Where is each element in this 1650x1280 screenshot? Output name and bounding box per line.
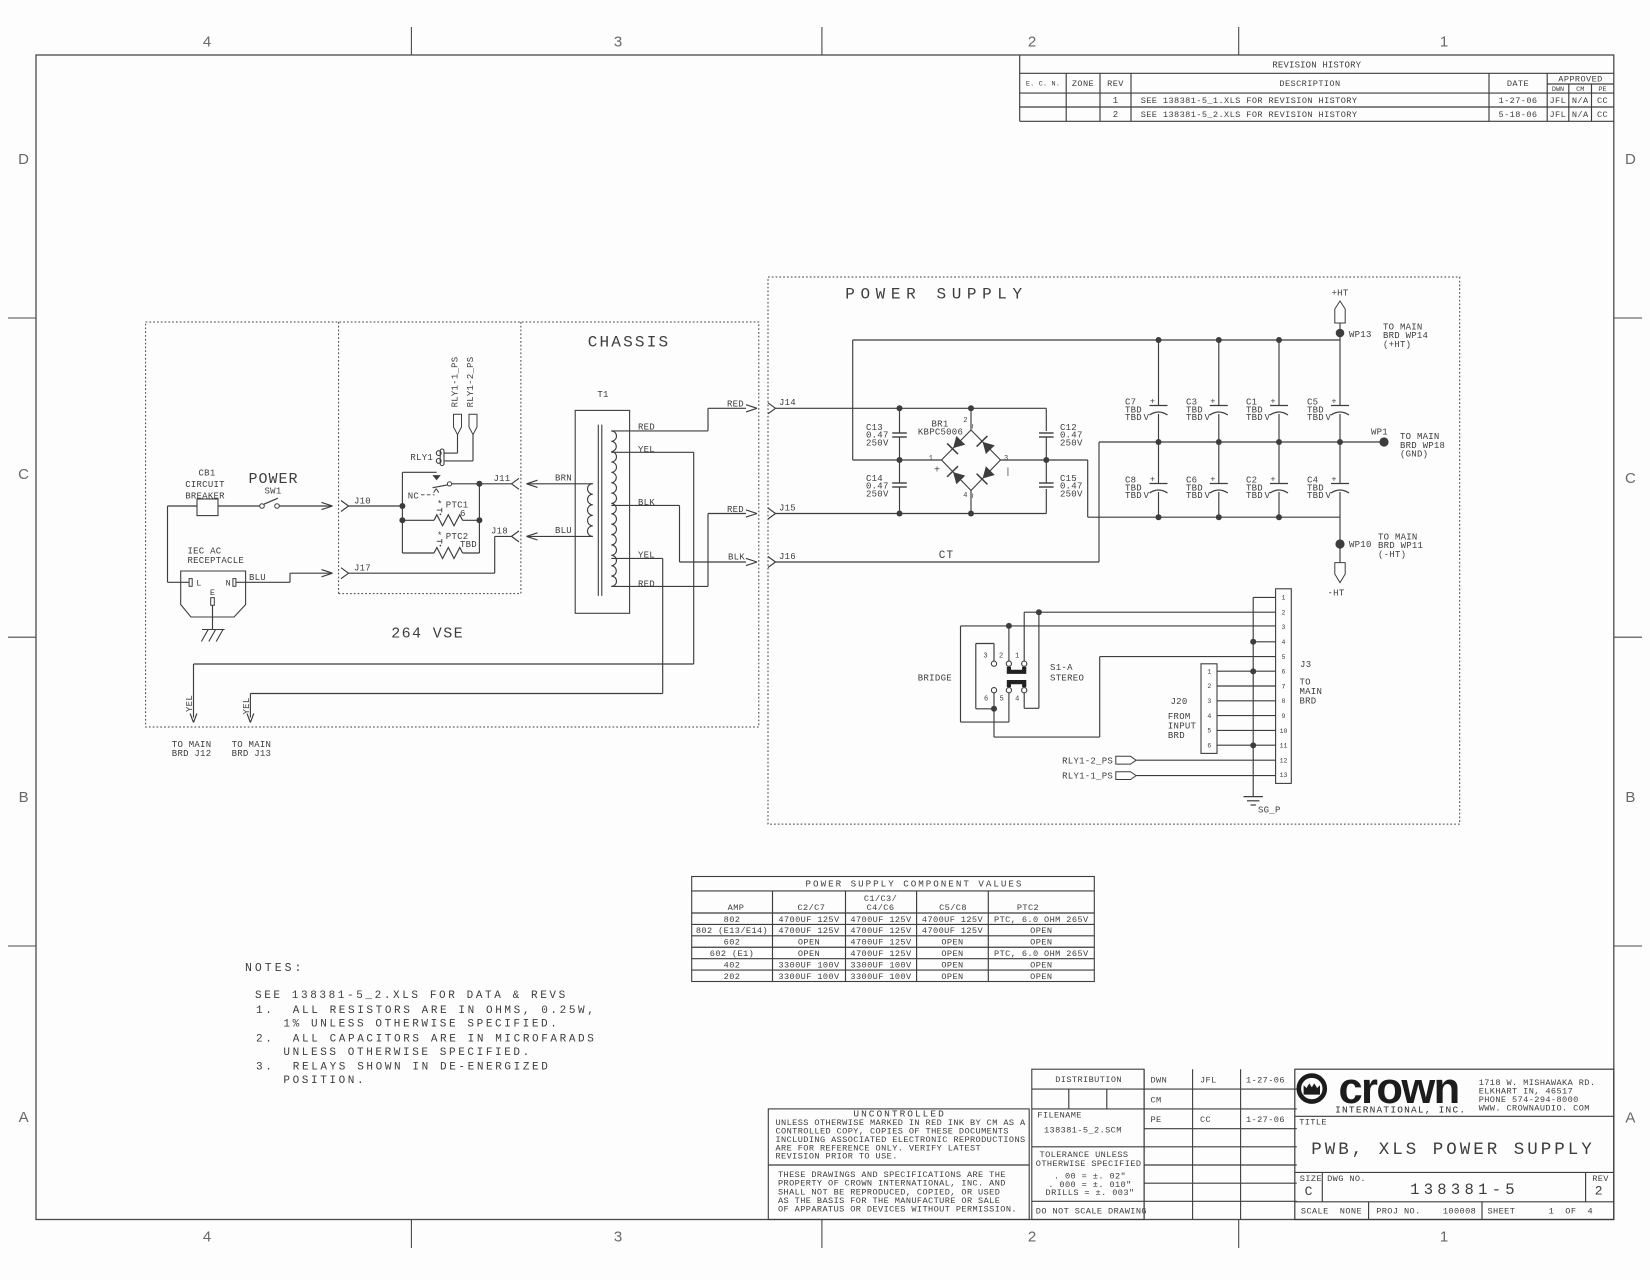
svg-text:E. C. N.: E. C. N. <box>1026 81 1060 89</box>
svg-text:A: A <box>1625 1109 1635 1126</box>
svg-text:RECEPTACLE: RECEPTACLE <box>188 556 245 566</box>
svg-text:OTHERWISE SPECIFIED: OTHERWISE SPECIFIED <box>1036 1159 1142 1169</box>
svg-text:POWER SUPPLY COMPONENT VALUES: POWER SUPPLY COMPONENT VALUES <box>806 878 1024 889</box>
svg-text:1-27-06: 1-27-06 <box>1246 1115 1285 1125</box>
svg-text:7: 7 <box>1282 683 1286 690</box>
svg-text:J10: J10 <box>354 496 371 506</box>
svg-text:(GND): (GND) <box>1400 450 1428 460</box>
svg-text:4700UF 125V: 4700UF 125V <box>778 915 840 925</box>
svg-text:PE: PE <box>1151 1115 1162 1125</box>
svg-text:PTC, 6.0 OHM 265V: PTC, 6.0 OHM 265V <box>994 915 1089 925</box>
svg-text:RED: RED <box>727 505 744 515</box>
svg-text:4: 4 <box>1207 713 1211 720</box>
svg-text:D: D <box>1625 151 1636 168</box>
svg-text:YEL: YEL <box>242 698 252 715</box>
svg-text:802 (E13/E14): 802 (E13/E14) <box>696 926 768 936</box>
svg-text:CM: CM <box>1151 1095 1162 1105</box>
svg-text:RLY1-2_PS: RLY1-2_PS <box>466 357 476 408</box>
svg-text:N/A: N/A <box>1572 96 1589 106</box>
svg-text:SG_P: SG_P <box>1258 806 1281 816</box>
svg-text:BRD J12: BRD J12 <box>172 749 212 759</box>
svg-text:N: N <box>225 578 231 588</box>
svg-text:REV: REV <box>1107 79 1124 89</box>
svg-text:TBD: TBD <box>1186 413 1203 423</box>
svg-text:YEL: YEL <box>185 695 195 712</box>
svg-text:INPUT: INPUT <box>1168 722 1197 732</box>
svg-text:OPEN: OPEN <box>1030 938 1052 948</box>
svg-text:YEL: YEL <box>638 445 655 455</box>
svg-text:8: 8 <box>1282 698 1286 705</box>
svg-text:BREAKER: BREAKER <box>185 491 225 501</box>
svg-text:PE: PE <box>1598 86 1606 94</box>
svg-text:3300UF 100V: 3300UF 100V <box>778 972 840 982</box>
svg-text:REV: REV <box>1592 1174 1609 1184</box>
svg-text:SEE 138381-5_2.XLS FOR REVISIO: SEE 138381-5_2.XLS FOR REVISION HISTORY <box>1141 110 1358 120</box>
svg-text:4700UF 125V: 4700UF 125V <box>850 926 912 936</box>
svg-text:INTERNATIONAL, INC.: INTERNATIONAL, INC. <box>1335 1105 1466 1116</box>
svg-text:E: E <box>210 588 216 598</box>
svg-text:WWW. CROWNAUDIO. COM: WWW. CROWNAUDIO. COM <box>1479 1103 1590 1113</box>
svg-text:1: 1 <box>1113 96 1118 106</box>
svg-text:802: 802 <box>724 915 741 925</box>
svg-text:+: + <box>1331 475 1337 485</box>
svg-text:3: 3 <box>614 1229 622 1246</box>
svg-text:DWN: DWN <box>1151 1075 1168 1085</box>
svg-text:+: + <box>1270 475 1276 485</box>
svg-text:+HT: +HT <box>1332 289 1349 299</box>
svg-text:RED: RED <box>638 579 655 589</box>
svg-text:V: V <box>1144 413 1150 423</box>
svg-text:3: 3 <box>983 653 987 661</box>
svg-text:NOTES:: NOTES: <box>245 962 304 975</box>
svg-text:1: 1 <box>1440 34 1448 51</box>
svg-text:BRD: BRD <box>1168 731 1185 741</box>
svg-text:REVISION HISTORY: REVISION HISTORY <box>1272 60 1361 70</box>
svg-text:2: 2 <box>1028 34 1036 51</box>
svg-text:RED: RED <box>727 400 744 410</box>
svg-text:~: ~ <box>969 493 979 499</box>
svg-text:2: 2 <box>1282 609 1286 616</box>
svg-text:~: ~ <box>969 423 979 429</box>
svg-text:250V: 250V <box>866 489 889 499</box>
svg-text:BLU: BLU <box>555 526 572 536</box>
svg-text:4700UF 125V: 4700UF 125V <box>922 915 984 925</box>
svg-text:4: 4 <box>963 492 967 500</box>
svg-text:+: + <box>1210 475 1216 485</box>
svg-text:TBD: TBD <box>1125 491 1142 501</box>
svg-text:C: C <box>1625 470 1636 487</box>
svg-text:1: 1 <box>1282 595 1286 602</box>
svg-text:CB1: CB1 <box>199 469 216 479</box>
svg-text:SCALE NONE: SCALE NONE <box>1301 1206 1362 1216</box>
svg-text:PROJ NO. 100008: PROJ NO. 100008 <box>1376 1206 1476 1216</box>
svg-text:PTC, 6.0 OHM 265V: PTC, 6.0 OHM 265V <box>994 949 1089 959</box>
svg-text:BLK: BLK <box>638 498 655 508</box>
svg-text:TBD: TBD <box>1125 413 1142 423</box>
svg-text:MAIN: MAIN <box>1300 687 1323 697</box>
svg-text:2: 2 <box>1113 110 1118 120</box>
svg-text:A: A <box>19 1109 29 1126</box>
svg-text:RLY1-2_PS: RLY1-2_PS <box>1062 756 1113 766</box>
svg-text:OPEN: OPEN <box>941 938 963 948</box>
svg-text:250V: 250V <box>1060 438 1083 448</box>
svg-text:J15: J15 <box>779 503 796 513</box>
svg-text:5-18-06: 5-18-06 <box>1499 110 1538 120</box>
svg-text:POWER SUPPLY: POWER SUPPLY <box>845 286 1027 304</box>
svg-text:+: + <box>1270 397 1276 407</box>
svg-text:SIZE: SIZE <box>1300 1174 1322 1184</box>
svg-text:REVISION PRIOR TO USE.: REVISION PRIOR TO USE. <box>776 1152 898 1162</box>
svg-text:+: + <box>934 465 940 476</box>
svg-text:SHEET 1 OF 4: SHEET 1 OF 4 <box>1488 1206 1594 1216</box>
svg-text:L: L <box>196 578 202 588</box>
svg-text:D: D <box>18 151 29 168</box>
svg-text:4700UF 125V: 4700UF 125V <box>778 926 840 936</box>
svg-text:CC: CC <box>1200 1115 1211 1125</box>
svg-text:1: 1 <box>1440 1229 1448 1246</box>
svg-text:ZONE: ZONE <box>1072 79 1094 89</box>
svg-text:C5/C8: C5/C8 <box>939 903 967 913</box>
svg-text:12: 12 <box>1280 757 1288 764</box>
svg-text:OF APPARATUS OR DEVICES WITHOU: OF APPARATUS OR DEVICES WITHOUT PERMISSI… <box>778 1205 1017 1215</box>
svg-text:6: 6 <box>1282 669 1286 676</box>
svg-text:OPEN: OPEN <box>1030 972 1052 982</box>
svg-text:4700UF 125V: 4700UF 125V <box>850 949 912 959</box>
svg-text:9: 9 <box>1282 713 1286 720</box>
svg-text:250V: 250V <box>866 438 889 448</box>
svg-text:1% UNLESS OTHERWISE SPECIFIED.: 1% UNLESS OTHERWISE SPECIFIED. <box>283 1019 559 1031</box>
svg-text:KBPC5006: KBPC5006 <box>918 428 963 438</box>
svg-text:V: V <box>1144 491 1150 501</box>
svg-text:BLU: BLU <box>249 573 266 583</box>
svg-text:|: | <box>1005 467 1010 477</box>
svg-text:2: 2 <box>999 653 1003 661</box>
svg-text:CT: CT <box>939 550 955 562</box>
svg-text:3: 3 <box>1282 624 1286 631</box>
svg-text:TBD: TBD <box>1186 491 1203 501</box>
svg-text:TBD: TBD <box>1246 491 1263 501</box>
svg-text:5: 5 <box>1207 728 1211 735</box>
svg-text:OPEN: OPEN <box>941 972 963 982</box>
svg-text:2: 2 <box>1595 1183 1603 1198</box>
svg-text:OPEN: OPEN <box>1030 960 1052 970</box>
svg-text:3. RELAYS SHOWN IN DE-ENERGIZ: 3. RELAYS SHOWN IN DE-ENERGIZED <box>256 1062 550 1074</box>
svg-text:+: + <box>1210 397 1216 407</box>
svg-text:138381-5_2.SCM: 138381-5_2.SCM <box>1044 1125 1122 1135</box>
svg-text:OPEN: OPEN <box>941 960 963 970</box>
svg-text:2: 2 <box>963 417 967 425</box>
svg-text:4: 4 <box>1282 639 1286 646</box>
svg-text:SW1: SW1 <box>265 487 282 497</box>
svg-text:202: 202 <box>724 972 741 982</box>
svg-text:APPROVED: APPROVED <box>1558 74 1602 84</box>
svg-text:V: V <box>1265 413 1271 423</box>
svg-text:138381-5: 138381-5 <box>1410 1181 1519 1199</box>
svg-text:J3: J3 <box>1300 660 1311 670</box>
svg-text:OPEN: OPEN <box>1030 926 1052 936</box>
svg-text:V: V <box>1205 491 1211 501</box>
svg-text:CC: CC <box>1597 96 1608 106</box>
svg-text:TBD: TBD <box>1246 413 1263 423</box>
svg-text:CHASSIS: CHASSIS <box>588 334 671 352</box>
svg-text:DISTRIBUTION: DISTRIBUTION <box>1055 1075 1122 1085</box>
svg-text:5: 5 <box>1282 654 1286 661</box>
svg-text:4: 4 <box>203 1229 211 1246</box>
svg-text:1: 1 <box>1015 653 1019 661</box>
svg-text:JFL: JFL <box>1200 1075 1217 1085</box>
svg-text:STEREO: STEREO <box>1050 674 1084 684</box>
svg-text:DESCRIPTION: DESCRIPTION <box>1279 79 1340 89</box>
svg-text:1: 1 <box>1207 668 1211 675</box>
svg-text:3: 3 <box>1004 455 1008 463</box>
svg-text:3: 3 <box>614 34 622 51</box>
svg-text:DO NOT SCALE DRAWING: DO NOT SCALE DRAWING <box>1036 1206 1147 1216</box>
svg-text:4: 4 <box>203 34 211 51</box>
svg-text:402: 402 <box>724 960 741 970</box>
svg-text:J17: J17 <box>354 564 371 574</box>
svg-text:J18: J18 <box>491 527 508 537</box>
svg-text:TBD: TBD <box>460 540 477 550</box>
svg-text:BRD: BRD <box>1300 697 1317 707</box>
svg-text:250V: 250V <box>1060 489 1083 499</box>
svg-text:V: V <box>1326 413 1332 423</box>
svg-text:RLY1: RLY1 <box>410 453 433 463</box>
svg-text:C: C <box>1305 1184 1313 1199</box>
svg-text:J11: J11 <box>494 474 511 484</box>
svg-text:(-HT): (-HT) <box>1378 550 1406 560</box>
svg-text:DATE: DATE <box>1507 79 1529 89</box>
svg-text:602 (E1): 602 (E1) <box>710 949 754 959</box>
svg-text:PWB, XLS POWER SUPPLY: PWB, XLS POWER SUPPLY <box>1311 1140 1595 1160</box>
svg-text:CC: CC <box>1597 110 1608 120</box>
svg-text:+: + <box>1331 397 1337 407</box>
svg-text:V: V <box>1326 491 1332 501</box>
svg-text:B: B <box>19 789 29 806</box>
svg-text:POSITION.: POSITION. <box>283 1075 366 1087</box>
svg-text:BRIDGE: BRIDGE <box>918 674 952 684</box>
svg-text:1-27-06: 1-27-06 <box>1246 1075 1285 1085</box>
svg-text:2. ALL CAPACITORS ARE IN MICR: 2. ALL CAPACITORS ARE IN MICROFARADS <box>256 1033 596 1045</box>
svg-text:J14: J14 <box>779 398 796 408</box>
svg-text:DWG NO.: DWG NO. <box>1327 1174 1366 1184</box>
svg-text:WP1: WP1 <box>1371 428 1388 438</box>
svg-text:TITLE: TITLE <box>1299 1117 1327 1127</box>
svg-text:OPEN: OPEN <box>798 938 820 948</box>
svg-text:+: + <box>1150 475 1156 485</box>
svg-text:11: 11 <box>1280 743 1288 750</box>
svg-text:3300UF 100V: 3300UF 100V <box>778 960 840 970</box>
svg-text:CIRCUIT: CIRCUIT <box>185 480 225 490</box>
svg-text:4700UF 125V: 4700UF 125V <box>850 915 912 925</box>
svg-text:1. ALL RESISTORS ARE IN OHMS,: 1. ALL RESISTORS ARE IN OHMS, 0.25W, <box>256 1005 596 1017</box>
svg-text:FROM: FROM <box>1168 712 1191 722</box>
svg-text:DRILLS = ±. 003": DRILLS = ±. 003" <box>1046 1188 1135 1198</box>
svg-text:RLY1-1_PS: RLY1-1_PS <box>451 357 461 408</box>
svg-text:1-27-06: 1-27-06 <box>1499 96 1538 106</box>
svg-text:-HT: -HT <box>1328 589 1345 599</box>
svg-text:10: 10 <box>1280 728 1288 735</box>
svg-text:OPEN: OPEN <box>941 949 963 959</box>
svg-text:602: 602 <box>724 938 741 948</box>
svg-text:JFL: JFL <box>1549 96 1566 106</box>
svg-text:C4/C6: C4/C6 <box>867 903 895 913</box>
svg-text:3300UF 100V: 3300UF 100V <box>850 960 912 970</box>
svg-text:C: C <box>18 466 29 483</box>
svg-text:3: 3 <box>1207 698 1211 705</box>
svg-text:13: 13 <box>1280 772 1288 779</box>
svg-text:WP13: WP13 <box>1349 330 1372 340</box>
svg-text:TBD: TBD <box>1307 413 1324 423</box>
svg-text:PTC2: PTC2 <box>1017 903 1039 913</box>
svg-text:C2/C7: C2/C7 <box>798 903 826 913</box>
svg-text:BRN: BRN <box>555 473 572 483</box>
svg-text:RLY1-1_PS: RLY1-1_PS <box>1062 772 1113 782</box>
svg-text:2: 2 <box>1028 1229 1036 1246</box>
svg-text:(+HT): (+HT) <box>1383 340 1411 350</box>
svg-text:S1-A: S1-A <box>1050 663 1073 673</box>
svg-text:J20: J20 <box>1170 697 1187 707</box>
svg-text:1: 1 <box>929 455 933 463</box>
svg-text:AMP: AMP <box>728 903 745 913</box>
svg-text:SEE 138381-5_2.XLS FOR DATA &: SEE 138381-5_2.XLS FOR DATA & REVS <box>255 990 568 1002</box>
svg-text:OPEN: OPEN <box>798 949 820 959</box>
svg-text:5: 5 <box>999 695 1003 703</box>
svg-text:4: 4 <box>1015 695 1019 703</box>
svg-text:NC: NC <box>408 492 420 502</box>
svg-text:JFL: JFL <box>1549 110 1566 120</box>
svg-text:6: 6 <box>984 695 988 703</box>
svg-text:SEE 138381-5_1.XLS FOR REVISIO: SEE 138381-5_1.XLS FOR REVISION HISTORY <box>1141 96 1358 106</box>
svg-text:2: 2 <box>1207 683 1211 690</box>
svg-text:T1: T1 <box>597 390 608 400</box>
svg-text:TBD: TBD <box>1307 491 1324 501</box>
svg-text:FILENAME: FILENAME <box>1037 1111 1081 1121</box>
svg-text:4700UF 125V: 4700UF 125V <box>922 926 984 936</box>
svg-text:CM: CM <box>1576 86 1584 94</box>
svg-text:BRD J13: BRD J13 <box>232 749 272 759</box>
svg-text:6: 6 <box>460 509 466 519</box>
svg-text:V: V <box>1265 491 1271 501</box>
svg-text:6: 6 <box>1207 742 1211 749</box>
svg-text:+: + <box>1150 397 1156 407</box>
svg-text:UNLESS OTHERWISE SPECIFIED.: UNLESS OTHERWISE SPECIFIED. <box>283 1047 531 1059</box>
svg-text:DWN: DWN <box>1552 86 1564 94</box>
svg-text:N/A: N/A <box>1572 110 1589 120</box>
svg-text:WP10: WP10 <box>1349 540 1372 550</box>
svg-text:B: B <box>1625 789 1635 806</box>
svg-text:4700UF 125V: 4700UF 125V <box>850 938 912 948</box>
svg-text:264 VSE: 264 VSE <box>391 626 464 643</box>
svg-text:J16: J16 <box>779 552 796 562</box>
svg-text:3300UF 100V: 3300UF 100V <box>850 972 912 982</box>
svg-text:BLK: BLK <box>728 552 745 562</box>
svg-text:V: V <box>1205 413 1211 423</box>
